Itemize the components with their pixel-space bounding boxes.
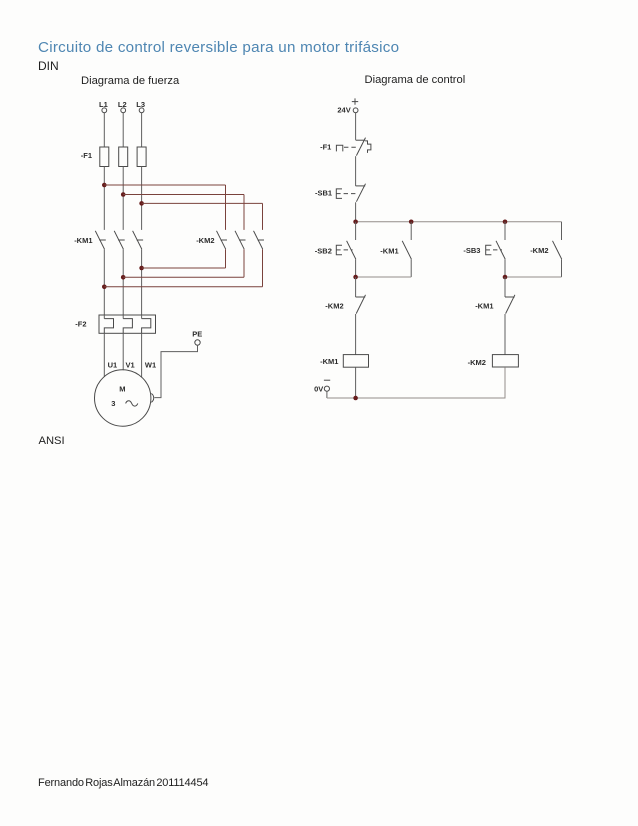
node junction KM2 return to L2	[121, 275, 126, 280]
wire SB2 to junction	[355, 259, 357, 277]
wire bus to KM1 aux	[410, 222, 412, 240]
svg-text:U1: U1	[108, 360, 118, 369]
node bus junction C	[503, 220, 508, 225]
svg-text:W1: W1	[145, 360, 156, 369]
node L2 supply terminal	[118, 100, 127, 113]
svg-text:-KM2: -KM2	[196, 236, 214, 245]
title	[38, 39, 399, 56]
node junction L1 to KM2	[102, 183, 107, 188]
wire KM1 interlock to KM2 coil	[504, 314, 506, 355]
label ANSI	[39, 435, 65, 447]
svg-text:M: M	[119, 385, 125, 394]
svg-text:0V: 0V	[314, 385, 323, 394]
node junction SB3-KM2aux	[503, 275, 508, 280]
overload relay F2 label	[75, 320, 86, 329]
svg-text:-SB2: -SB2	[315, 246, 332, 255]
node bottom bus junction	[353, 396, 358, 401]
overload F2 heater element 1	[104, 315, 113, 333]
node L3 supply terminal	[136, 100, 145, 113]
breaker F1 label	[320, 143, 331, 152]
overload F2 heater element 2	[123, 315, 132, 333]
wire 24V to F1	[355, 113, 357, 140]
wire SB3 to junction	[504, 259, 506, 277]
node bus junction A	[353, 220, 358, 225]
pushbutton SB2 NO start forward	[336, 241, 356, 259]
svg-text:-KM2: -KM2	[530, 246, 548, 255]
svg-text:24V: 24V	[337, 106, 350, 115]
svg-text:PE: PE	[192, 330, 202, 339]
wire control bottom bus	[327, 367, 505, 398]
svg-text:V1: V1	[126, 360, 135, 369]
wire KM1 aux bottom	[410, 259, 412, 277]
wire L1 terminal to fuse	[103, 113, 105, 147]
contact KM1 NO auxiliary seal-in	[402, 241, 411, 259]
wire SB1 to bus	[355, 202, 357, 222]
wire KM1 pole 1 to overload F2	[103, 249, 105, 315]
fuse group F1 label	[81, 151, 92, 160]
wire KM1 pole 3 to overload F2	[141, 249, 143, 315]
wire down to KM2 pole 3 top	[262, 203, 264, 230]
pushbutton SB2 label	[315, 246, 332, 255]
wire F2 to motor terminal 2	[122, 333, 124, 370]
wire KM1 pole 2 to overload F2	[122, 249, 124, 315]
wire F2 to motor terminal 3	[141, 333, 143, 377]
node L1 supply terminal	[99, 100, 108, 113]
node 24V supply terminal	[337, 98, 358, 114]
pushbutton SB3 label	[463, 246, 480, 255]
contactor KM2 NO contact pole 3	[254, 231, 265, 249]
wire KM2 aux to junction horizontal	[505, 276, 562, 278]
contactor KM2 label	[196, 236, 214, 245]
wire F1 to SB1	[355, 156, 357, 186]
wire KM1 coil to 0V bus	[355, 367, 357, 398]
node junction L3 to KM2	[139, 201, 144, 206]
wire KM2 interlock to KM1 coil	[355, 314, 357, 355]
contact KM2 NO auxiliary seal-in	[553, 241, 562, 259]
svg-text:3: 3	[111, 399, 115, 408]
wire bus to SB2	[355, 222, 357, 240]
svg-text:-KM2: -KM2	[325, 301, 343, 310]
wire F2 to motor terminal 1	[103, 333, 105, 377]
contactor KM1 NO contact pole 2	[114, 231, 125, 249]
wire KM2 pole bottom stub x262	[262, 249, 264, 287]
svg-text:-F1: -F1	[320, 143, 331, 152]
contact KM2 NC interlock	[356, 295, 366, 314]
motor M1 three-phase	[95, 370, 151, 426]
node PE terminal	[192, 330, 202, 346]
wire L2 to KM2 pole 2 horizontal	[123, 194, 244, 196]
svg-text:-KM2: -KM2	[468, 358, 486, 367]
wire KM2 return horizontal at y286	[104, 286, 262, 288]
contactor KM2 NO contact pole 2	[235, 231, 246, 249]
wire bus corner to KM2 aux	[561, 222, 563, 240]
wire L3 terminal to fuse	[141, 113, 143, 147]
pushbutton SB1 NC stop	[336, 184, 365, 202]
coil KM2 contactor	[492, 355, 518, 367]
fuse F1 pole 2	[119, 147, 128, 167]
wire junction to KM1 interlock	[504, 277, 506, 297]
wire fuse 1 to KM1 contact	[103, 167, 105, 230]
footer author	[38, 777, 208, 789]
pushbutton SB1 label	[315, 188, 332, 197]
breaker F1 NC thermal contact	[336, 138, 371, 156]
pushbutton SB3 NO start reverse	[486, 241, 506, 259]
wire bus to SB3	[504, 222, 506, 240]
wire down to KM2 pole 2 top	[243, 195, 245, 230]
svg-text:-KM1: -KM1	[475, 302, 493, 311]
wire KM2 aux bottom	[561, 259, 563, 277]
wire fuse 3 to KM1 contact	[141, 167, 143, 230]
node 0V supply terminal	[314, 380, 330, 394]
wire KM2 pole bottom stub x244	[243, 249, 245, 277]
heading Diagrama de fuerza	[81, 75, 179, 87]
contactor KM1 NO contact pole 3	[133, 231, 144, 249]
contactor KM2 NO contact pole 1	[217, 231, 228, 249]
fuse F1 pole 3	[137, 147, 146, 167]
contactor KM1 label	[74, 236, 92, 245]
motor frame earth clip	[151, 394, 153, 403]
wire fuse 2 to KM1 contact	[122, 167, 124, 230]
contactor KM1 NO contact pole 1	[95, 231, 106, 249]
overload F2 heater element 3	[142, 315, 151, 333]
coil KM1 label	[320, 357, 338, 366]
wire 0V to bus	[326, 391, 328, 398]
contact KM1 interlock label	[475, 302, 493, 311]
wire down to KM2 pole 1 top	[225, 185, 227, 230]
motor terminal labels U1 V1 W1	[108, 360, 157, 369]
svg-text:-KM1: -KM1	[74, 236, 92, 245]
wire control top bus	[356, 221, 562, 223]
wire KM2 pole bottom stub x225	[225, 249, 227, 268]
contact KM1 aux label	[380, 246, 398, 255]
contact KM2 interlock label	[325, 301, 343, 310]
wire KM2 coil to 0V bus	[504, 367, 506, 398]
node junction L2 to KM2	[121, 192, 126, 197]
node junction SB2-KM1aux	[353, 275, 358, 280]
wire L3 to KM2 pole 3 horizontal	[142, 202, 263, 204]
fuse F1 pole 1	[100, 147, 109, 167]
node junction KM2 return to L1	[102, 285, 107, 290]
wire L2 terminal to fuse	[122, 113, 124, 147]
coil KM2 label	[468, 358, 486, 367]
heading Diagrama de control	[365, 74, 466, 86]
wire PE to motor frame	[154, 345, 197, 397]
wire KM2 return horizontal at y268	[142, 267, 226, 269]
svg-text:-SB1: -SB1	[315, 188, 332, 197]
svg-text:-F1: -F1	[81, 151, 92, 160]
svg-text:-KM1: -KM1	[380, 246, 398, 255]
overload relay F2 box	[99, 315, 156, 333]
svg-text:-SB3: -SB3	[463, 246, 480, 255]
wire junction to KM2 interlock	[355, 277, 357, 297]
contact KM1 NC interlock	[505, 295, 515, 314]
wire KM1 aux to junction horizontal	[356, 276, 412, 278]
node bus junction B	[409, 220, 414, 225]
node junction KM2 return to L3	[139, 266, 144, 271]
coil KM1 contactor	[343, 355, 368, 368]
label DIN	[38, 59, 59, 73]
svg-text:-F2: -F2	[75, 320, 86, 329]
wire KM2 return horizontal at y277	[123, 276, 244, 278]
contact KM2 aux label	[530, 246, 548, 255]
wire L1 to KM2 pole 1 horizontal	[104, 184, 225, 186]
svg-text:-KM1: -KM1	[320, 357, 338, 366]
